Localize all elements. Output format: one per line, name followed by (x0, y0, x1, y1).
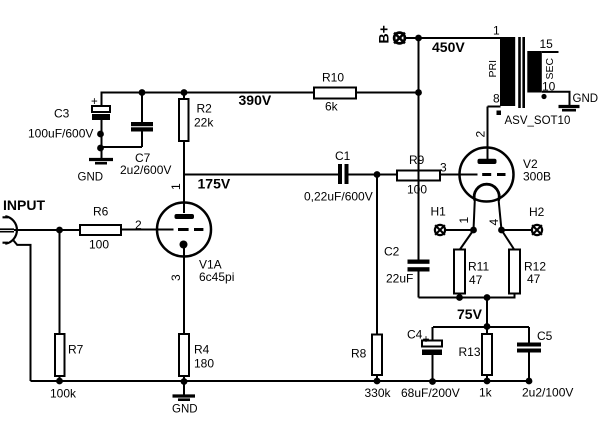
svg-text:75V: 75V (457, 306, 483, 322)
svg-text:0,22uF/600V: 0,22uF/600V (304, 190, 373, 204)
node dot input/R7 (56, 227, 63, 234)
node dot 75V/R13 (484, 323, 491, 330)
svg-text:1k: 1k (479, 386, 493, 400)
ground below R4 (172, 382, 198, 416)
svg-text:R11: R11 (468, 260, 489, 274)
wire cathode node down to 75V (486, 298, 488, 328)
terminal H2 (529, 205, 545, 235)
svg-text:22uF: 22uF (386, 272, 413, 286)
svg-text:175V: 175V (198, 176, 231, 192)
svg-text:15: 15 (540, 37, 554, 51)
wire B+ line crossing R9 (418, 171, 420, 181)
svg-text:100: 100 (407, 183, 427, 197)
wire pin 10 to ground (542, 92, 570, 105)
wire B+ to transformer pin 1 (405, 37, 501, 39)
svg-text:+: + (91, 96, 98, 108)
tube V2 300B (457, 107, 551, 231)
resistor R8 (351, 175, 392, 401)
node dot C5 bottom (526, 378, 533, 385)
secondary winding SEC (527, 51, 542, 93)
capacitor C2 (384, 245, 430, 298)
svg-text:3: 3 (169, 274, 183, 281)
wire pin 15 (542, 51, 559, 53)
wire pin 8 to V2 anode (488, 106, 501, 108)
svg-text:R13: R13 (459, 345, 481, 359)
node dot R4 bottom (181, 378, 188, 385)
svg-text:R9: R9 (409, 153, 425, 167)
wire top rail R10 to B+ line (355, 92, 420, 94)
svg-text:H1: H1 (431, 205, 447, 219)
tube V1A 6c45pi (135, 183, 234, 284)
svg-text:GND: GND (172, 404, 198, 416)
svg-text:22k: 22k (194, 116, 214, 130)
svg-text:300B: 300B (523, 170, 551, 184)
primary phase dot (497, 111, 502, 116)
primary winding PRI (500, 37, 515, 106)
svg-text:330k: 330k (365, 386, 392, 400)
connector INPUT (0, 197, 80, 244)
wire R9 to V2 grid (440, 174, 478, 176)
svg-text:47: 47 (469, 273, 483, 287)
wire top 390V rail left of R10 (101, 92, 315, 94)
wire ground rail (31, 380, 532, 382)
svg-text:6k: 6k (325, 100, 339, 114)
node dot C4 bottom (429, 378, 436, 385)
capacitor C1 (304, 149, 373, 204)
capacitor C7 (101, 92, 172, 178)
node dot C7 top (139, 89, 146, 96)
svg-text:3: 3 (440, 161, 447, 175)
svg-text:PRI: PRI (487, 60, 499, 78)
svg-text:68uF/200V: 68uF/200V (401, 386, 460, 400)
svg-text:C3: C3 (54, 107, 70, 121)
wire input shield down (14, 241, 31, 382)
svg-text:2u2/600V: 2u2/600V (120, 163, 171, 177)
wire pin4 to H2 (502, 229, 532, 231)
capacitor C5 (517, 327, 573, 400)
svg-text:GND: GND (78, 172, 104, 184)
svg-text:R4: R4 (194, 343, 210, 357)
svg-text:180: 180 (194, 357, 214, 371)
wire 175V node (184, 174, 338, 176)
resistor R6 (80, 205, 174, 252)
ground transformer (559, 93, 599, 110)
wire B+ vertical line (418, 38, 420, 260)
svg-text:INPUT: INPUT (3, 197, 45, 213)
core (520, 37, 524, 108)
node dot C3/C7 junction (97, 145, 104, 152)
resistor R4 (179, 334, 214, 382)
wire C2 bottom to R11/R12 (419, 297, 515, 299)
wire C1 to R9 (349, 174, 398, 176)
node dot R11 bottom (456, 294, 463, 301)
node dot R2 top (181, 89, 188, 96)
svg-text:ASV_SOT10: ASV_SOT10 (505, 115, 571, 127)
node dot R13 bottom (484, 378, 491, 385)
resistor R11 (454, 230, 489, 299)
node dot B+ line (415, 35, 422, 42)
svg-text:8: 8 (493, 92, 500, 106)
terminal B+ (376, 25, 405, 43)
svg-text:C5: C5 (537, 329, 553, 343)
node dot cathode mid (484, 294, 491, 301)
svg-text:450V: 450V (432, 39, 465, 55)
secondary phase dot (541, 94, 546, 99)
svg-text:C2: C2 (384, 245, 400, 259)
svg-text:SEC: SEC (544, 57, 556, 79)
svg-text:C4: C4 (407, 328, 423, 342)
wire 75V node line (433, 326, 529, 328)
svg-text:100k: 100k (50, 387, 77, 401)
svg-text:1: 1 (493, 23, 500, 37)
node dot R7 bottom (56, 378, 63, 385)
node dot V2 pin4 (498, 227, 505, 234)
svg-text:R8: R8 (351, 347, 367, 361)
node dot R10 right / B+ line (415, 89, 422, 96)
svg-text:R6: R6 (93, 205, 109, 219)
node dot R8 bottom (374, 378, 381, 385)
resistor R2 (179, 93, 214, 214)
svg-text:1: 1 (457, 217, 471, 224)
wire H1 to pin1 (446, 229, 474, 231)
ground below C3 (78, 160, 114, 184)
wire V1A cathode to R4 (183, 245, 185, 335)
svg-text:47: 47 (527, 272, 541, 286)
capacitor C3 (28, 92, 110, 159)
svg-text:H2: H2 (529, 205, 545, 219)
svg-text:1: 1 (169, 183, 183, 190)
svg-text:R2: R2 (197, 102, 213, 116)
svg-text:B+: B+ (376, 25, 392, 43)
svg-text:100: 100 (89, 238, 109, 252)
svg-text:390V: 390V (239, 92, 272, 108)
svg-text:C1: C1 (335, 149, 351, 163)
svg-text:GND: GND (573, 93, 599, 105)
node dot below C3 (97, 131, 104, 138)
resistor R12 (502, 230, 547, 299)
capacitor C4 (401, 327, 460, 400)
svg-text:+: + (423, 332, 430, 346)
svg-text:2u2/100V: 2u2/100V (522, 386, 573, 400)
resistor R10 (314, 71, 356, 114)
svg-text:100uF/600V: 100uF/600V (28, 127, 93, 141)
svg-text:R7: R7 (68, 343, 84, 357)
svg-text:6c45pi: 6c45pi (199, 270, 234, 284)
resistor R13 (459, 327, 493, 400)
resistor R7 (50, 230, 84, 401)
transformer T1 ASV_SOT10 (487, 23, 570, 127)
node dot C1/R8/R9 (374, 171, 381, 178)
svg-text:R10: R10 (322, 71, 344, 85)
node dot V2 pin1 (470, 227, 477, 234)
svg-text:2: 2 (474, 131, 488, 138)
svg-text:4: 4 (487, 219, 501, 226)
resistor R9 (397, 153, 447, 197)
terminal H1 (431, 205, 447, 236)
